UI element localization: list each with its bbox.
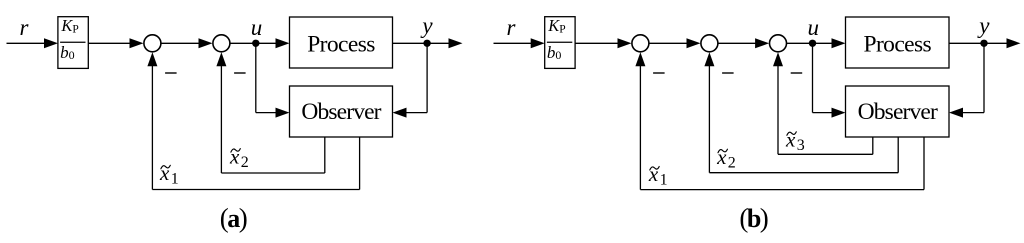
summing junction 2 (b) <box>701 35 718 52</box>
svg-text:KP: KP <box>60 16 78 35</box>
arrowhead x2 into junction 2 (a) <box>216 52 226 66</box>
svg-text:Observer: Observer <box>858 99 938 125</box>
summing junction 1 (a) <box>144 35 161 52</box>
label x-tilde-2 (a) <box>229 144 249 171</box>
svg-text:1: 1 <box>171 171 179 188</box>
svg-text:u: u <box>807 15 819 40</box>
svg-text:x: x <box>229 144 240 168</box>
gain block Kp/b0 (a) <box>58 17 88 69</box>
wire: estimate x2 feedback (a) <box>324 137 326 173</box>
arrowhead x1 into junction 1 (a) <box>147 52 157 66</box>
svg-text:KP: KP <box>547 16 565 35</box>
svg-text:r: r <box>20 15 30 40</box>
arrowhead into summing junction 3 (b) <box>755 38 769 48</box>
gain block Kp/b0 (b) <box>545 17 575 69</box>
arrowhead into summing junction 2 (a) <box>199 38 213 48</box>
node u (a) <box>252 40 259 47</box>
node y (a) <box>423 40 430 47</box>
output arrowhead (b) <box>1007 38 1021 48</box>
svg-text:2: 2 <box>241 154 249 171</box>
arrowhead into Kp/b0 block (b) <box>531 38 545 48</box>
svg-text:3: 3 <box>797 137 805 154</box>
wire: junction 3 to Process (b) <box>787 42 833 44</box>
wire: y branch down to Observer (a) <box>426 43 428 112</box>
minus sign at junction 1 (b) <box>653 72 665 74</box>
arrowhead into Kp/b0 block (a) <box>44 38 58 48</box>
wire: Process to output y (a) <box>393 42 450 44</box>
label x-tilde-1 (a) <box>159 161 179 188</box>
svg-text:u: u <box>251 15 263 40</box>
svg-text:x: x <box>716 145 727 169</box>
summing junction 3 (b) <box>770 35 787 52</box>
wire: junction 2 to junction 3 (b) <box>718 42 756 44</box>
fraction bar (a) <box>60 41 85 43</box>
arrowhead into summing junction 2 (b) <box>687 38 701 48</box>
wire: estimate x1 feedback (b) <box>923 137 925 190</box>
wire: junction 1 to junction 2 (b) <box>649 42 687 44</box>
minus sign at junction 2 (b) <box>722 72 734 74</box>
svg-text:Process: Process <box>863 31 931 57</box>
arrowhead x2 into junction 2 (b) <box>704 52 714 66</box>
arrowhead y into Observer (a) <box>393 108 407 118</box>
arrowhead u into Observer (b) <box>832 108 846 118</box>
minus sign at junction 3 (b) <box>791 72 803 74</box>
wire: Kp/b0 to summing junction 1 (b) <box>575 42 618 44</box>
arrowhead x1 into junction 1 (b) <box>635 52 645 66</box>
wire: junction 1 to junction 2 (a) <box>161 42 199 44</box>
svg-text:b0: b0 <box>547 43 562 62</box>
svg-text:x: x <box>785 128 796 152</box>
wire: u branch down to Observer (b) <box>812 43 814 112</box>
wire: estimate x1 feedback (a) <box>359 137 361 190</box>
svg-text:2: 2 <box>728 154 736 171</box>
svg-text:(a): (a) <box>220 203 247 233</box>
output arrowhead (a) <box>449 38 463 48</box>
Process block (a) <box>290 17 393 68</box>
wire: y branch down to Observer (b) <box>983 43 985 112</box>
svg-text:x: x <box>648 162 659 186</box>
arrowhead into Process (b) <box>832 38 846 48</box>
node y (b) <box>980 40 987 47</box>
wire: estimate x2 feedback (b) <box>897 137 899 173</box>
minus sign at junction 2 (a) <box>234 72 246 74</box>
svg-text:x: x <box>159 161 170 185</box>
svg-text:(b): (b) <box>739 203 767 233</box>
arrowhead into summing junction 1 (a) <box>130 38 144 48</box>
svg-text:Observer: Observer <box>301 99 381 125</box>
svg-text:1: 1 <box>660 172 668 189</box>
summing junction 2 (a) <box>213 35 230 52</box>
wire: reference input r (b) <box>494 42 533 44</box>
Observer block (b) <box>846 86 950 137</box>
Observer block (a) <box>290 86 393 137</box>
arrowhead into Process (a) <box>276 38 290 48</box>
Process block (b) <box>846 17 950 68</box>
svg-text:Process: Process <box>307 31 375 57</box>
arrowhead y into Observer (b) <box>949 108 963 118</box>
node u (b) <box>809 40 816 47</box>
label x-tilde-2 (b) <box>716 145 736 172</box>
arrowhead u into Observer (a) <box>276 108 290 118</box>
summing junction 1 (b) <box>632 35 649 52</box>
svg-text:y: y <box>977 13 990 38</box>
wire: estimate x3 feedback (b) <box>872 137 874 154</box>
svg-text:r: r <box>507 15 517 40</box>
svg-text:b0: b0 <box>60 43 75 62</box>
label x-tilde-1 (b) <box>648 162 668 189</box>
wire: junction 2 to Process (a) <box>230 42 276 44</box>
arrowhead into summing junction 1 (b) <box>618 38 632 48</box>
arrowhead x3 into junction 3 (b) <box>773 52 783 66</box>
fraction bar (b) <box>547 41 572 43</box>
label x-tilde-3 (b) <box>785 128 805 155</box>
wire: reference input r (a) <box>7 42 46 44</box>
minus sign at junction 1 (a) <box>165 72 177 74</box>
svg-text:y: y <box>420 13 433 38</box>
wire: Kp/b0 to summing junction 1 (a) <box>88 42 130 44</box>
wire: Process to output y (b) <box>949 42 1007 44</box>
wire: u branch down to Observer (a) <box>255 43 257 112</box>
